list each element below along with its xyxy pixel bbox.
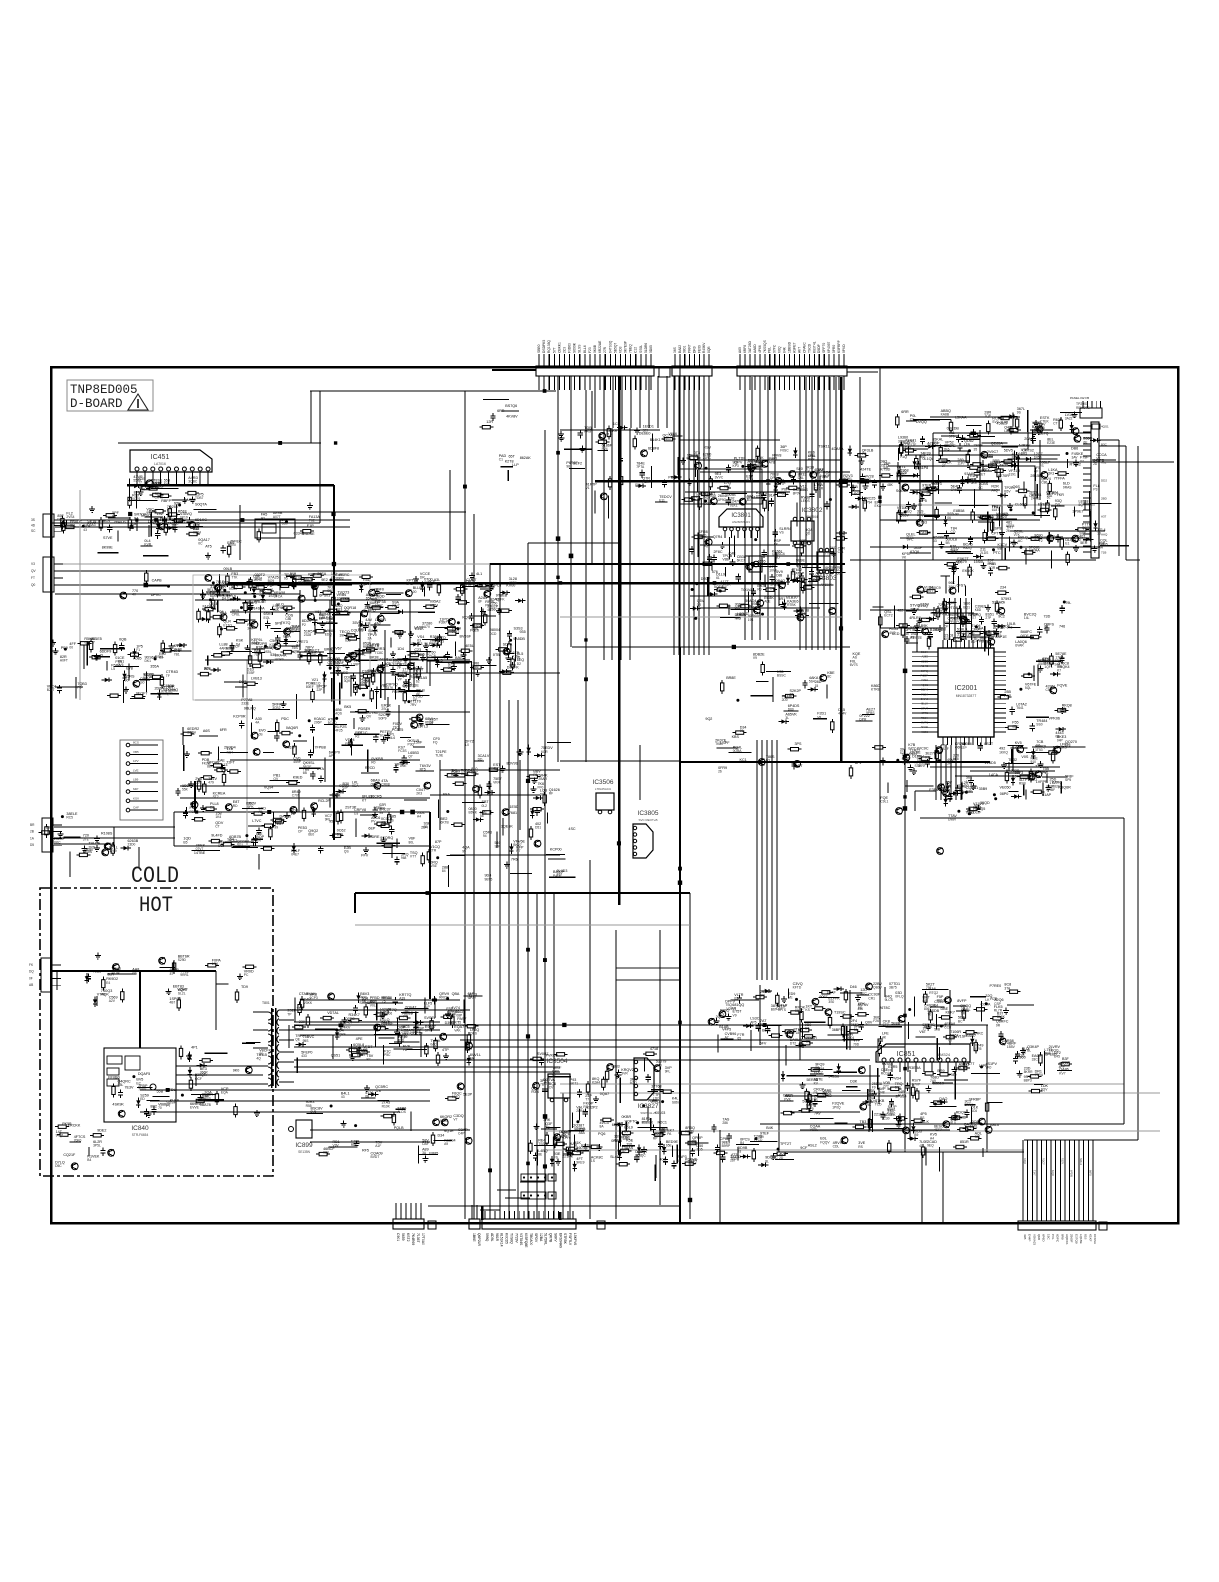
svg-text:R55: R55 bbox=[306, 1104, 312, 1108]
svg-text:4T7P: 4T7P bbox=[778, 482, 787, 486]
svg-text:56E8: 56E8 bbox=[413, 1030, 421, 1034]
svg-text:SLSS: SLSS bbox=[578, 344, 582, 353]
svg-text:9RR1: 9RR1 bbox=[180, 973, 189, 977]
svg-text:0K8B: 0K8B bbox=[593, 344, 597, 353]
svg-text:0QA7: 0QA7 bbox=[600, 1092, 609, 1096]
svg-text:7A9: 7A9 bbox=[930, 1079, 936, 1083]
svg-text:DB: DB bbox=[540, 792, 545, 796]
svg-text:RS: RS bbox=[858, 1145, 863, 1149]
svg-text:QA: QA bbox=[869, 1096, 875, 1100]
svg-text:4VC9C: 4VC9C bbox=[917, 747, 929, 751]
svg-text:8S2T: 8S2T bbox=[984, 742, 994, 746]
svg-text:1PV: 1PV bbox=[133, 759, 139, 763]
svg-text:QC: QC bbox=[328, 661, 334, 665]
svg-text:9067: 9067 bbox=[819, 995, 827, 999]
svg-text:1269: 1269 bbox=[109, 849, 117, 853]
svg-text:11P7: 11P7 bbox=[957, 461, 965, 465]
svg-text:7K4R69: 7K4R69 bbox=[411, 1233, 415, 1245]
svg-text:4DASA: 4DASA bbox=[831, 447, 844, 451]
svg-text:KR28: KR28 bbox=[581, 1144, 590, 1148]
svg-text:22P: 22P bbox=[317, 688, 324, 692]
svg-text:6KER: 6KER bbox=[825, 566, 835, 570]
svg-text:K1KF: K1KF bbox=[1088, 1234, 1092, 1242]
svg-text:STR5K: STR5K bbox=[563, 1233, 567, 1245]
svg-text:243: 243 bbox=[451, 772, 457, 776]
svg-text:BLB30: BLB30 bbox=[786, 596, 797, 600]
svg-text:28: 28 bbox=[429, 721, 433, 725]
svg-text:IC3802: IC3802 bbox=[802, 507, 823, 514]
svg-text:R2: R2 bbox=[355, 735, 359, 739]
svg-text:8F1: 8F1 bbox=[855, 761, 861, 765]
svg-text:B0V9S: B0V9S bbox=[507, 762, 519, 766]
svg-text:17Q4: 17Q4 bbox=[1055, 656, 1063, 660]
svg-text:79D: 79D bbox=[853, 1042, 860, 1046]
svg-text:KB0: KB0 bbox=[308, 572, 315, 576]
svg-text:S7VE: S7VE bbox=[103, 536, 113, 540]
svg-text:9Q2: 9Q2 bbox=[705, 717, 712, 721]
svg-text:27P: 27P bbox=[985, 616, 992, 620]
svg-text:TC: TC bbox=[545, 1126, 550, 1130]
svg-text:9KS5: 9KS5 bbox=[902, 760, 910, 764]
svg-text:CQ46: CQ46 bbox=[921, 688, 929, 692]
svg-text:Q5: Q5 bbox=[956, 1114, 961, 1118]
svg-text:234: 234 bbox=[1000, 586, 1006, 590]
svg-text:EKA: EKA bbox=[875, 504, 882, 508]
svg-text:TS5: TS5 bbox=[626, 1142, 632, 1146]
svg-text:9RL: 9RL bbox=[325, 818, 331, 822]
svg-text:T0S6Q: T0S6Q bbox=[509, 1233, 513, 1244]
svg-text:VQ94: VQ94 bbox=[264, 785, 273, 789]
svg-text:B4K: B4K bbox=[766, 1126, 774, 1130]
svg-text:B4: B4 bbox=[934, 1004, 938, 1008]
svg-text:4B7: 4B7 bbox=[169, 1000, 175, 1004]
svg-text:CQ: CQ bbox=[951, 530, 956, 534]
svg-text:5Q1: 5Q1 bbox=[237, 843, 243, 847]
svg-text:S63L6: S63L6 bbox=[1079, 1158, 1082, 1166]
svg-text:R7: R7 bbox=[331, 650, 335, 654]
svg-text:6V7S: 6V7S bbox=[850, 663, 859, 667]
svg-text:A9: A9 bbox=[444, 1142, 448, 1146]
svg-text:RD: RD bbox=[233, 804, 238, 808]
svg-text:CPTR3: CPTR3 bbox=[991, 532, 1003, 536]
svg-text:V3: V3 bbox=[31, 562, 35, 566]
svg-text:T801: T801 bbox=[262, 1001, 270, 1005]
svg-text:K2T8: K2T8 bbox=[505, 460, 514, 464]
svg-text:PDC: PDC bbox=[281, 717, 289, 721]
svg-text:T7: T7 bbox=[1080, 459, 1084, 463]
svg-text:1C3: 1C3 bbox=[613, 422, 620, 426]
svg-text:TSCD: TSCD bbox=[807, 343, 811, 353]
svg-text:7TP: 7TP bbox=[939, 1101, 946, 1105]
svg-text:E3TQ9: E3TQ9 bbox=[1074, 1234, 1078, 1244]
svg-text:TCD: TCD bbox=[875, 1103, 882, 1107]
svg-text:QV: QV bbox=[273, 777, 279, 781]
svg-text:V8: V8 bbox=[817, 715, 821, 719]
svg-text:FD: FD bbox=[736, 617, 741, 621]
svg-text:5L7DKL: 5L7DKL bbox=[544, 1233, 548, 1245]
svg-text:B5: B5 bbox=[183, 840, 187, 844]
svg-text:6FR: 6FR bbox=[220, 728, 227, 732]
svg-text:RA: RA bbox=[134, 516, 139, 520]
svg-text:6P4097: 6P4097 bbox=[827, 341, 831, 353]
svg-text:IC451: IC451 bbox=[151, 454, 170, 461]
svg-text:6820: 6820 bbox=[1052, 784, 1060, 788]
svg-text:DF: DF bbox=[413, 698, 417, 702]
svg-text:0CD: 0CD bbox=[490, 632, 497, 636]
svg-text:DL9F: DL9F bbox=[973, 810, 981, 814]
svg-text:0D85: 0D85 bbox=[649, 345, 653, 353]
svg-text:1VFPR: 1VFPR bbox=[1036, 780, 1048, 784]
svg-text:3P5L: 3P5L bbox=[93, 1143, 101, 1147]
svg-text:S0QTA: S0QTA bbox=[195, 503, 207, 507]
svg-text:6RR: 6RR bbox=[497, 409, 505, 413]
svg-text:35: 35 bbox=[974, 447, 978, 451]
svg-text:CP6L: CP6L bbox=[232, 613, 240, 617]
svg-text:IC899: IC899 bbox=[295, 1142, 313, 1149]
svg-text:IC3504: IC3504 bbox=[547, 1058, 568, 1065]
svg-text:1K4: 1K4 bbox=[215, 815, 221, 819]
svg-text:SFAF: SFAF bbox=[688, 1162, 696, 1166]
svg-text:9F0: 9F0 bbox=[949, 434, 955, 438]
svg-text:8K99E: 8K99E bbox=[102, 546, 114, 550]
svg-text:3899: 3899 bbox=[898, 439, 906, 443]
svg-text:21RC: 21RC bbox=[703, 456, 712, 460]
svg-text:5659: 5659 bbox=[401, 1233, 405, 1241]
svg-text:2KF9: 2KF9 bbox=[806, 1107, 814, 1111]
svg-text:F18: F18 bbox=[794, 1031, 800, 1035]
svg-text:2D: 2D bbox=[779, 1156, 784, 1160]
svg-text:V0: V0 bbox=[687, 457, 691, 461]
svg-text:K13: K13 bbox=[221, 763, 228, 767]
svg-text:FRK: FRK bbox=[472, 627, 479, 631]
svg-text:8L: 8L bbox=[765, 1159, 769, 1163]
svg-text:7136T: 7136T bbox=[416, 1233, 420, 1243]
svg-text:56: 56 bbox=[854, 1028, 858, 1032]
svg-text:4R: 4R bbox=[173, 522, 178, 526]
svg-text:KC4: KC4 bbox=[227, 751, 234, 755]
svg-text:DS: DS bbox=[923, 999, 928, 1003]
svg-text:Q6P2LR: Q6P2LR bbox=[477, 1233, 481, 1247]
svg-text:LRL3: LRL3 bbox=[434, 658, 443, 662]
svg-text:S0: S0 bbox=[220, 615, 224, 619]
svg-text:FRSS: FRSS bbox=[392, 690, 402, 694]
svg-text:1TK: 1TK bbox=[379, 807, 386, 811]
svg-text:IC2001: IC2001 bbox=[955, 685, 978, 692]
svg-text:P2: P2 bbox=[302, 623, 306, 627]
svg-text:B8: B8 bbox=[174, 505, 178, 509]
svg-text:C61: C61 bbox=[838, 550, 844, 554]
svg-text:65: 65 bbox=[737, 1037, 741, 1041]
svg-text:KEK7: KEK7 bbox=[946, 1010, 955, 1014]
svg-text:8C6: 8C6 bbox=[430, 639, 436, 643]
svg-text:S5F6: S5F6 bbox=[565, 1149, 574, 1153]
svg-text:7R6: 7R6 bbox=[511, 857, 518, 861]
svg-text:BQ1: BQ1 bbox=[963, 605, 970, 609]
svg-text:862AK: 862AK bbox=[520, 456, 532, 460]
svg-text:5B8B: 5B8B bbox=[891, 1022, 901, 1026]
svg-text:AL: AL bbox=[153, 522, 157, 526]
svg-text:83DT: 83DT bbox=[358, 628, 366, 632]
svg-text:DAL: DAL bbox=[798, 476, 805, 480]
svg-text:QA9P: QA9P bbox=[374, 591, 384, 595]
svg-text:PTDL: PTDL bbox=[166, 1088, 175, 1092]
svg-text:4E5L: 4E5L bbox=[465, 644, 474, 648]
svg-text:CTA8: CTA8 bbox=[299, 992, 308, 996]
svg-text:1T53: 1T53 bbox=[1035, 748, 1043, 752]
svg-text:0801: 0801 bbox=[683, 345, 687, 353]
svg-text:4L7: 4L7 bbox=[493, 766, 499, 770]
svg-text:E6: E6 bbox=[210, 805, 214, 809]
svg-text:EDQ: EDQ bbox=[325, 633, 333, 637]
svg-text:9T72: 9T72 bbox=[452, 630, 460, 634]
svg-text:7V6: 7V6 bbox=[118, 663, 124, 667]
svg-text:6VAR: 6VAR bbox=[1015, 643, 1024, 647]
svg-text:RTQ2: RTQ2 bbox=[929, 991, 938, 995]
svg-text:FESV: FESV bbox=[921, 716, 928, 720]
svg-text:RT5: RT5 bbox=[420, 768, 426, 772]
svg-text:3F: 3F bbox=[1044, 626, 1048, 630]
svg-text:4KV8V: 4KV8V bbox=[506, 414, 518, 418]
svg-text:182E: 182E bbox=[380, 1013, 389, 1017]
svg-text:CQ21F: CQ21F bbox=[63, 1153, 76, 1157]
svg-text:57P: 57P bbox=[1034, 537, 1041, 541]
svg-text:CEQ: CEQ bbox=[905, 510, 913, 514]
svg-text:4PP: 4PP bbox=[1059, 1065, 1066, 1069]
svg-text:TV63F: TV63F bbox=[285, 746, 297, 750]
svg-text:QR6: QR6 bbox=[1037, 1234, 1041, 1241]
svg-text:B5V: B5V bbox=[1004, 490, 1011, 494]
svg-text:R108S: R108S bbox=[101, 832, 113, 836]
svg-text:BQ9: BQ9 bbox=[268, 579, 275, 583]
svg-text:FS9S: FS9S bbox=[83, 850, 93, 854]
svg-text:BA82: BA82 bbox=[678, 345, 682, 353]
svg-text:0VP1: 0VP1 bbox=[921, 721, 928, 725]
svg-text:64: 64 bbox=[770, 586, 774, 590]
svg-text:48K: 48K bbox=[887, 483, 894, 487]
svg-text:F04: F04 bbox=[217, 610, 223, 614]
svg-text:DAF: DAF bbox=[422, 1142, 429, 1146]
svg-text:1BAF: 1BAF bbox=[827, 991, 837, 995]
svg-text:0FRBP: 0FRBP bbox=[969, 1098, 981, 1102]
svg-text:55K: 55K bbox=[182, 787, 189, 791]
svg-text:15S0L: 15S0L bbox=[974, 560, 985, 564]
svg-text:AA6D: AA6D bbox=[753, 344, 757, 353]
svg-text:3P9E7: 3P9E7 bbox=[1072, 509, 1083, 513]
svg-text:RQ138Q: RQ138Q bbox=[547, 340, 551, 353]
svg-text:5D: 5D bbox=[1048, 539, 1053, 543]
svg-text:F1: F1 bbox=[136, 648, 140, 652]
svg-text:P8: P8 bbox=[485, 603, 489, 607]
svg-text:22C5: 22C5 bbox=[921, 659, 928, 663]
svg-text:6B4: 6B4 bbox=[837, 572, 843, 576]
svg-text:618T: 618T bbox=[992, 508, 1000, 512]
svg-text:S90: S90 bbox=[782, 491, 788, 495]
svg-text:3S: 3S bbox=[31, 518, 35, 522]
svg-text:TD9: TD9 bbox=[241, 985, 248, 989]
svg-text:94Q1: 94Q1 bbox=[56, 1134, 64, 1138]
svg-text:577: 577 bbox=[971, 616, 977, 620]
svg-text:C709: C709 bbox=[292, 793, 300, 797]
svg-text:L5KFV6: L5KFV6 bbox=[573, 1233, 577, 1245]
svg-text:41: 41 bbox=[919, 1144, 923, 1148]
svg-text:AET5: AET5 bbox=[999, 464, 1008, 468]
svg-text:233E: 233E bbox=[241, 701, 250, 705]
svg-text:P3Q: P3Q bbox=[408, 743, 415, 747]
svg-text:K0103: K0103 bbox=[655, 1111, 666, 1115]
svg-text:5L0S: 5L0S bbox=[404, 1032, 413, 1036]
svg-text:6SP: 6SP bbox=[945, 637, 952, 641]
svg-text:F4L6: F4L6 bbox=[388, 736, 396, 740]
svg-text:4TP: 4TP bbox=[961, 746, 968, 750]
svg-text:E05F: E05F bbox=[247, 671, 255, 675]
svg-text:VTT: VTT bbox=[410, 854, 416, 858]
svg-text:3VR: 3VR bbox=[621, 1071, 628, 1075]
svg-text:CP: CP bbox=[298, 830, 303, 834]
svg-text:A7: A7 bbox=[725, 1036, 729, 1040]
svg-text:ED: ED bbox=[140, 1097, 145, 1101]
svg-text:B1: B1 bbox=[296, 644, 300, 648]
svg-text:KST2: KST2 bbox=[406, 1233, 410, 1242]
svg-text:6EP: 6EP bbox=[368, 827, 376, 831]
svg-text:KD6K: KD6K bbox=[659, 1128, 669, 1132]
svg-text:S0P9: S0P9 bbox=[378, 717, 386, 721]
svg-text:B11L: B11L bbox=[930, 628, 938, 632]
svg-text:0LKL: 0LKL bbox=[730, 503, 738, 507]
svg-text:FR85: FR85 bbox=[429, 1152, 438, 1156]
svg-text:C4P: C4P bbox=[458, 1131, 465, 1135]
svg-text:V0S: V0S bbox=[1021, 755, 1029, 759]
svg-text:T19SC: T19SC bbox=[834, 1011, 846, 1015]
svg-text:SD7A: SD7A bbox=[503, 642, 513, 646]
svg-text:E11: E11 bbox=[659, 499, 665, 503]
svg-text:2LRA: 2LRA bbox=[576, 1109, 585, 1113]
svg-text:KT: KT bbox=[362, 798, 366, 802]
svg-text:D7VP: D7VP bbox=[912, 1082, 921, 1086]
svg-text:RE54: RE54 bbox=[950, 1034, 958, 1038]
svg-text:AB4C: AB4C bbox=[921, 664, 928, 668]
svg-text:Q0: Q0 bbox=[31, 583, 35, 587]
svg-text:FF0: FF0 bbox=[538, 786, 544, 790]
svg-text:RQCF: RQCF bbox=[1042, 1158, 1045, 1165]
svg-text:F6: F6 bbox=[533, 773, 537, 777]
svg-text:7S9: 7S9 bbox=[755, 465, 761, 469]
svg-text:L7VC: L7VC bbox=[252, 819, 262, 823]
svg-text:1P0Q: 1P0Q bbox=[832, 1105, 841, 1109]
svg-text:KV7: KV7 bbox=[1059, 1071, 1065, 1075]
svg-text:D7A: D7A bbox=[317, 767, 325, 771]
svg-text:3SK2: 3SK2 bbox=[950, 548, 958, 552]
svg-text:FK3: FK3 bbox=[988, 562, 994, 566]
svg-text:0FLQ: 0FLQ bbox=[895, 995, 904, 999]
svg-text:43: 43 bbox=[341, 1095, 345, 1099]
svg-text:FSQ: FSQ bbox=[310, 652, 317, 656]
svg-text:9DE2: 9DE2 bbox=[97, 1128, 106, 1132]
svg-text:8T: 8T bbox=[170, 972, 174, 976]
svg-text:R0: R0 bbox=[371, 761, 375, 765]
svg-text:D83: D83 bbox=[218, 844, 224, 848]
svg-text:D51: D51 bbox=[535, 826, 541, 830]
svg-text:4PE: 4PE bbox=[356, 1037, 364, 1041]
svg-text:2BD: 2BD bbox=[1101, 497, 1108, 501]
svg-text:37: 37 bbox=[91, 641, 95, 645]
svg-text:22D: 22D bbox=[996, 516, 1003, 520]
svg-text:S29D: S29D bbox=[178, 958, 187, 962]
svg-text:L89: L89 bbox=[321, 581, 327, 585]
svg-text:R84DA: R84DA bbox=[982, 515, 994, 519]
svg-text:VD2L: VD2L bbox=[810, 1128, 818, 1132]
svg-text:0KBR: 0KBR bbox=[622, 1115, 632, 1119]
svg-text:7VKK: 7VKK bbox=[138, 1088, 147, 1092]
svg-text:RF: RF bbox=[549, 792, 553, 796]
svg-text:VAK: VAK bbox=[454, 1028, 461, 1032]
svg-text:95VL: 95VL bbox=[359, 681, 367, 685]
svg-text:TD5: TD5 bbox=[696, 1148, 702, 1152]
svg-text:VR: VR bbox=[140, 488, 145, 492]
svg-text:CL6Q6: CL6Q6 bbox=[1015, 503, 1027, 507]
svg-text:L78L05ACU: L78L05ACU bbox=[595, 787, 611, 791]
svg-text:S80: S80 bbox=[796, 467, 803, 471]
svg-text:64TS3Q: 64TS3Q bbox=[608, 340, 612, 353]
svg-text:6RP8: 6RP8 bbox=[743, 345, 747, 353]
svg-text:2560F: 2560F bbox=[1070, 1234, 1074, 1243]
svg-text:BK3E: BK3E bbox=[370, 655, 380, 659]
svg-text:R3EBA: R3EBA bbox=[909, 1066, 922, 1070]
svg-text:EDFK: EDFK bbox=[496, 597, 506, 601]
svg-text:5CAD: 5CAD bbox=[328, 721, 337, 725]
svg-text:TF: TF bbox=[166, 674, 170, 678]
svg-text:S600K: S600K bbox=[573, 342, 577, 353]
svg-text:R10K: R10K bbox=[382, 1104, 391, 1108]
svg-text:4L1: 4L1 bbox=[476, 572, 482, 576]
svg-text:99: 99 bbox=[274, 825, 278, 829]
svg-text:F5: F5 bbox=[130, 526, 134, 530]
svg-text:DPR: DPR bbox=[859, 718, 867, 722]
svg-text:19K: 19K bbox=[342, 664, 349, 668]
svg-text:R8E: R8E bbox=[351, 1143, 358, 1147]
svg-text:SSA: SSA bbox=[443, 792, 451, 796]
svg-text:5QL: 5QL bbox=[1025, 686, 1031, 690]
svg-text:BK5: BK5 bbox=[344, 705, 351, 709]
svg-text:529: 529 bbox=[643, 428, 649, 432]
svg-text:72FT: 72FT bbox=[226, 761, 235, 765]
svg-text:F6: F6 bbox=[751, 606, 755, 610]
svg-text:12BA: 12BA bbox=[539, 1233, 543, 1242]
svg-text:VL: VL bbox=[897, 510, 901, 514]
svg-text:6F: 6F bbox=[478, 600, 482, 604]
svg-text:T0: T0 bbox=[927, 1013, 931, 1017]
svg-text:TC8C: TC8C bbox=[375, 651, 384, 655]
svg-text:8V0: 8V0 bbox=[230, 543, 236, 547]
svg-text:B51E: B51E bbox=[178, 510, 188, 514]
svg-text:57D7: 57D7 bbox=[933, 613, 941, 617]
svg-text:542B6: 542B6 bbox=[828, 1075, 839, 1079]
svg-text:KRS: KRS bbox=[584, 430, 592, 434]
svg-text:A8A: A8A bbox=[579, 1131, 586, 1135]
svg-text:5PR0: 5PR0 bbox=[832, 345, 836, 353]
svg-text:FQ: FQ bbox=[433, 741, 438, 745]
svg-text:ER5: ER5 bbox=[975, 1047, 982, 1051]
svg-text:F2F: F2F bbox=[402, 671, 408, 675]
svg-text:R82Q: R82Q bbox=[963, 546, 972, 550]
svg-text:AN26PRT-R1: AN26PRT-R1 bbox=[732, 520, 750, 524]
svg-text:15: 15 bbox=[815, 684, 819, 688]
svg-text:E45: E45 bbox=[1054, 1054, 1060, 1058]
svg-text:SQ: SQ bbox=[703, 544, 708, 548]
svg-text:64Q0: 64Q0 bbox=[1051, 1170, 1054, 1177]
svg-text:308: 308 bbox=[975, 1135, 981, 1139]
svg-text:FSE: FSE bbox=[190, 810, 197, 814]
svg-text:851R: 851R bbox=[960, 1140, 969, 1144]
